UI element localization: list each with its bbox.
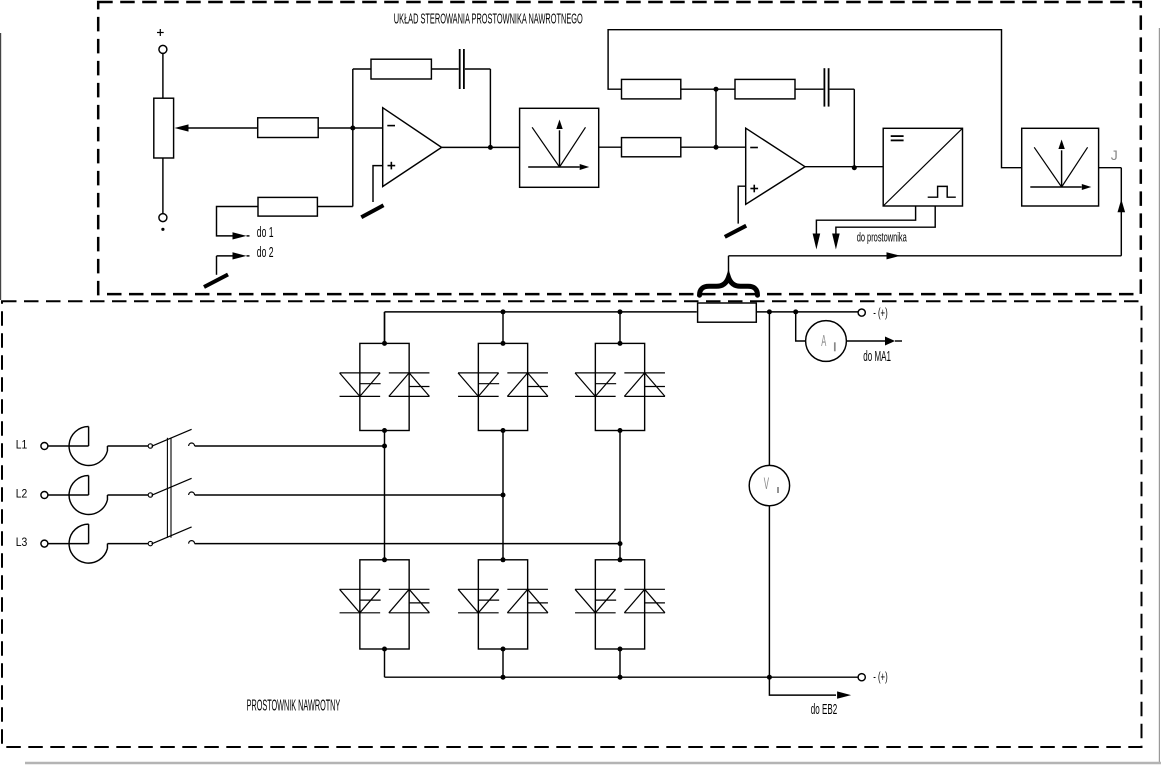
svg-text:do EB2: do EB2 — [811, 702, 837, 718]
svg-text:L2: L2 — [16, 488, 28, 501]
svg-text:do MA1: do MA1 — [863, 349, 891, 365]
svg-text:A: A — [821, 332, 826, 350]
svg-text:- (+): - (+) — [873, 670, 888, 685]
svg-text:PROSTOWNIK NAWROTNY: PROSTOWNIK NAWROTNY — [247, 696, 341, 714]
svg-text:do 2: do 2 — [257, 244, 274, 261]
svg-text:L3: L3 — [16, 537, 28, 550]
svg-text:L1: L1 — [16, 439, 28, 452]
svg-text:V: V — [764, 474, 769, 493]
svg-text:UKŁAD STEROWANIA PROSTOWNIKA N: UKŁAD STEROWANIA PROSTOWNIKA NAWROTNEGO — [394, 12, 583, 27]
svg-text:- (+): - (+) — [873, 306, 888, 321]
svg-text:do prostownika: do prostownika — [857, 230, 907, 245]
svg-text:J: J — [1111, 147, 1118, 163]
svg-text:do 1: do 1 — [257, 224, 274, 241]
